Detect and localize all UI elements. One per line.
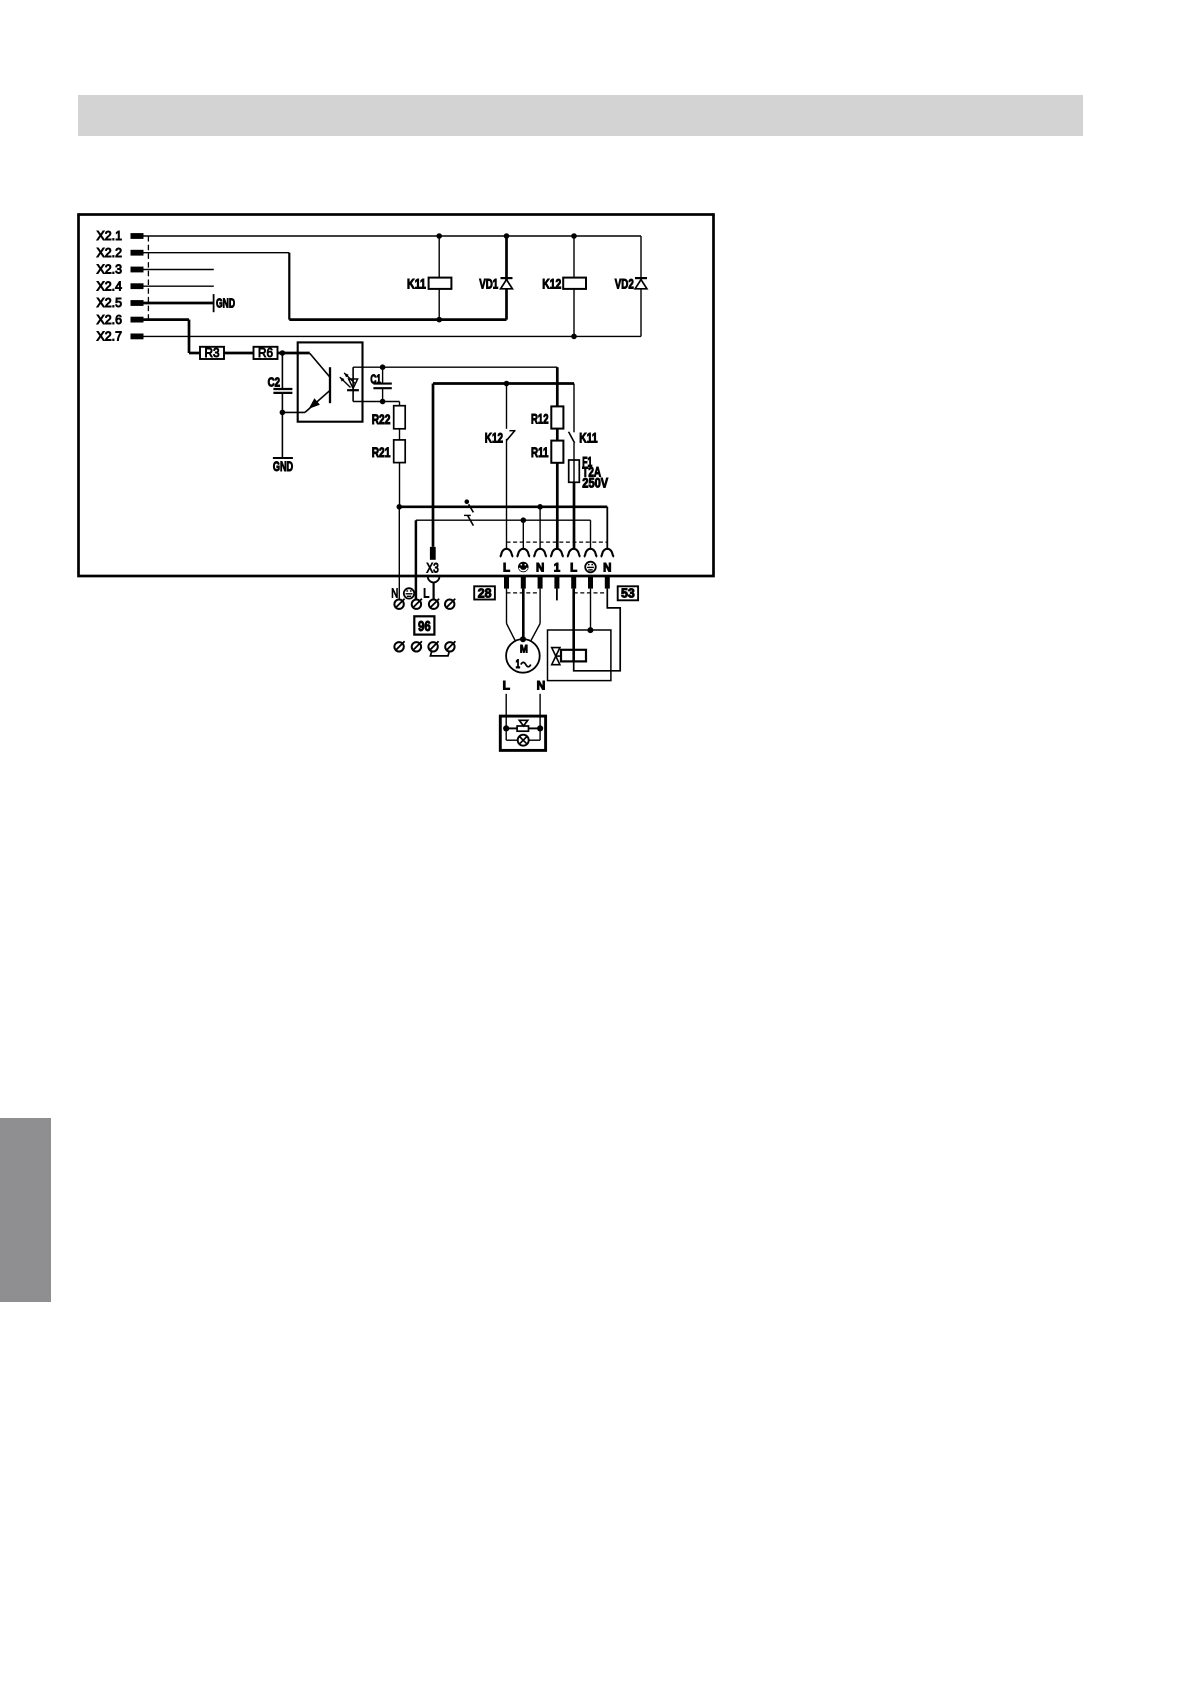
- svg-text:K11: K11: [407, 277, 426, 292]
- svg-text:R11: R11: [531, 445, 549, 460]
- svg-text:X2.4: X2.4: [97, 279, 123, 293]
- svg-text:N: N: [603, 562, 611, 574]
- svg-text:R22: R22: [372, 412, 391, 427]
- svg-text:250V: 250V: [582, 475, 608, 490]
- svg-text:N: N: [537, 679, 546, 693]
- svg-text:C2: C2: [268, 376, 280, 390]
- svg-text:X3: X3: [426, 561, 439, 576]
- svg-text:M: M: [520, 644, 528, 656]
- svg-text:K11: K11: [579, 431, 598, 446]
- svg-text:L: L: [570, 562, 577, 574]
- svg-text:VD2: VD2: [615, 277, 634, 292]
- svg-text:N: N: [536, 562, 544, 574]
- svg-text:C1: C1: [370, 372, 381, 386]
- svg-text:X2.3: X2.3: [97, 263, 123, 277]
- svg-text:X2.5: X2.5: [97, 296, 123, 310]
- svg-text:L: L: [503, 562, 510, 574]
- svg-text:L: L: [423, 586, 429, 601]
- svg-text:X2.7: X2.7: [97, 330, 123, 344]
- svg-text:R6: R6: [258, 345, 273, 360]
- svg-text:K12: K12: [542, 277, 561, 292]
- svg-text:96: 96: [418, 619, 431, 635]
- svg-text:X2.1: X2.1: [97, 229, 123, 243]
- svg-text:R12: R12: [531, 411, 549, 426]
- svg-text:R21: R21: [372, 445, 391, 460]
- svg-text:N: N: [391, 586, 398, 601]
- svg-text:L: L: [503, 679, 510, 693]
- svg-text:1: 1: [516, 659, 521, 671]
- svg-text:1: 1: [554, 562, 561, 574]
- svg-text:X2.2: X2.2: [97, 246, 123, 260]
- svg-text:VD1: VD1: [479, 277, 498, 292]
- svg-text:R3: R3: [205, 345, 220, 360]
- svg-text:53: 53: [621, 586, 635, 601]
- svg-text:GND: GND: [216, 297, 235, 311]
- svg-text:K12: K12: [485, 431, 503, 446]
- svg-text:GND: GND: [273, 459, 293, 474]
- svg-text:28: 28: [478, 585, 492, 600]
- svg-text:X2.6: X2.6: [97, 313, 123, 327]
